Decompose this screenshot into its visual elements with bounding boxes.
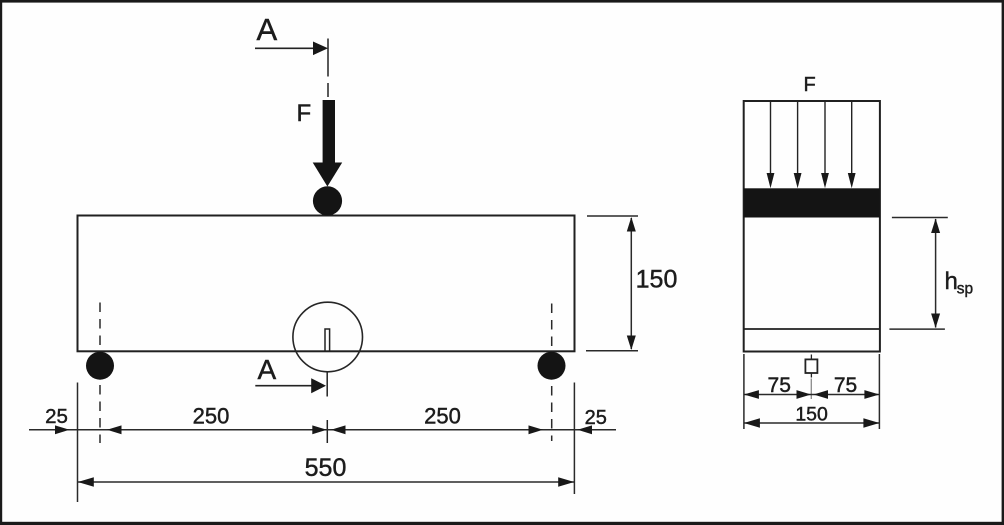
detail circle around notch (293, 302, 363, 372)
arrowhead 75 right outer (864, 390, 879, 399)
section arrow A bottom (255, 378, 326, 393)
extension line beam bottom for 150 (586, 350, 638, 352)
svg-text:75: 75 (768, 374, 791, 397)
extension line cross-section left (743, 354, 745, 429)
extension line right beam edge (573, 383, 575, 495)
notch mark below cross-section (805, 355, 817, 400)
svg-text:25: 25 (585, 407, 607, 429)
arrowhead 75 left center (797, 390, 812, 399)
arrowhead 550 left (78, 477, 94, 487)
arrowhead 250 right at support centerline (529, 425, 544, 434)
svg-text:F: F (297, 100, 312, 127)
svg-text:150: 150 (795, 404, 828, 426)
beam specimen outline (78, 216, 575, 352)
bottom dimension line 25/250/250/25 (29, 429, 616, 431)
dimension line 150 cross-section (744, 422, 880, 424)
distributed load arrow 1 (767, 102, 775, 188)
arrowhead h_sp down (931, 314, 940, 329)
arrowhead 150 cs right (863, 418, 879, 428)
svg-text:75: 75 (834, 374, 857, 397)
beam height dimension line 150 (630, 218, 632, 349)
extension line strip bottom for h_sp (892, 217, 948, 219)
h_sp dimension line (935, 219, 937, 328)
arrowhead 75 right center (814, 390, 829, 399)
dimension line 75/75 (744, 394, 880, 396)
svg-text:550: 550 (305, 454, 347, 482)
distributed load arrow 3 (821, 102, 829, 188)
svg-text:A: A (258, 354, 277, 385)
svg-text:sp: sp (957, 281, 973, 298)
notch tip line h_sp (744, 328, 880, 330)
right support roller (538, 352, 566, 380)
arrowhead 250 left at midspan (312, 425, 327, 434)
arrowhead h_sp up (931, 219, 940, 234)
svg-text:F: F (804, 74, 816, 96)
arrowhead 75 left outer (744, 390, 759, 399)
distributed load arrow 2 (794, 102, 802, 188)
right support centerline (dashed) (551, 304, 553, 442)
section line A-A top (327, 39, 329, 98)
arrowhead 250 right at midspan (331, 425, 346, 434)
arrowhead 25 left outer (55, 425, 70, 434)
svg-text:250: 250 (424, 404, 461, 429)
arrowhead 150 up (627, 217, 636, 232)
span dimension line 550 (78, 481, 574, 483)
arrowhead 550 right (558, 477, 574, 487)
left support centerline (dashed) (99, 303, 101, 444)
extension line notch tip for h_sp (889, 328, 945, 330)
left support roller (86, 352, 114, 380)
loading roller (313, 186, 342, 215)
loading strip (filled) (744, 188, 880, 217)
svg-text:25: 25 (45, 405, 68, 428)
section arrow A top (255, 42, 328, 56)
arrowhead 150 down (627, 336, 636, 351)
extension line left beam edge (77, 383, 79, 503)
cross-section outline (744, 101, 880, 352)
distributed load arrow 4 (848, 102, 856, 188)
arrowhead 250 left at support centerline (107, 425, 122, 434)
force arrow F (313, 100, 343, 187)
arrowhead 150 cs left (744, 418, 760, 428)
notch slit (325, 329, 330, 351)
svg-text:A: A (257, 12, 278, 47)
extension line beam top for 150 (587, 215, 638, 217)
section line A-A bottom (326, 372, 328, 444)
svg-text:150: 150 (636, 266, 678, 294)
arrowhead 25 right outer (578, 425, 593, 434)
extension line cross-section right (878, 354, 880, 429)
svg-text:250: 250 (193, 404, 230, 429)
